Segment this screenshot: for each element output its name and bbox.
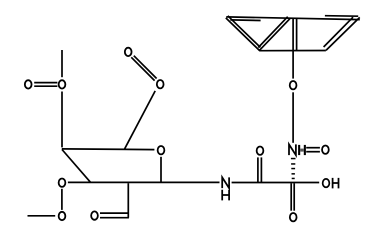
wire aromatic V left arm lower line	[226, 18, 260, 51]
wire aromatic central vertical second	[296, 19, 298, 51]
node N=O nitro double bond	[306, 147, 320, 149]
wire long horizontal O-C3-C2-C1-N	[68, 181, 220, 183]
wire ring right edge O-C1	[160, 157, 162, 183]
wire O-O bond methoxy left	[61, 189, 63, 210]
wire aromatic top-left inner double line	[230, 19, 260, 22]
wire O-C4 bond	[61, 92, 63, 148]
wire O-N bond vertical	[292, 92, 294, 143]
node O methoxy upper	[59, 179, 66, 187]
node O methoxy lower	[59, 212, 66, 220]
wire aromatic top long line	[226, 17, 359, 20]
node O formate bottom	[157, 80, 164, 88]
node N nitro	[289, 144, 296, 155]
wire aromatic right diagonal inner	[324, 17, 353, 47]
wire aromatic right diagonal	[326, 17, 360, 50]
node O above N	[290, 81, 297, 89]
node O amide	[257, 147, 264, 155]
node O formate top	[125, 48, 132, 56]
node O left carbonate	[25, 80, 32, 88]
node O=O double bond left carbonate	[34, 82, 57, 84]
node O ring	[158, 146, 165, 154]
node O nitro right	[322, 146, 329, 154]
wire aromatic V right arm inner line	[258, 17, 287, 48]
wire aromatic top-right upper line	[325, 15, 358, 18]
node H hydroxyl	[333, 178, 339, 189]
node hashed wedge Calpha-N	[291, 158, 296, 179]
node formate double bond O=O diagonal	[131, 57, 154, 80]
node N amine	[222, 177, 229, 188]
node O carbonate center	[59, 80, 66, 88]
node H amine	[222, 190, 229, 201]
wire aromatic V left arm upper line	[228, 16, 261, 48]
node wedge bond N to O	[298, 145, 306, 155]
node amide C=O double bond	[257, 157, 259, 182]
wire N-C(amide)-Calpha-OH	[232, 182, 320, 184]
node aldehyde C=O double bond	[100, 212, 129, 214]
wire C2-CHO bond	[127, 183, 129, 217]
wire aromatic bottom line	[260, 50, 326, 52]
node carboxyl C=O double bond	[290, 183, 292, 210]
node O hydroxyl	[323, 179, 330, 187]
wire ring top edge C4-C5-O	[62, 148, 155, 151]
wire methyl-O bond top left carbonate	[61, 50, 63, 77]
wire aromatic-O bond vertical	[292, 19, 294, 79]
node O aldehyde	[91, 211, 98, 219]
wire ring diagonal C4-C3	[62, 150, 91, 183]
node O carboxyl bottom	[290, 213, 297, 221]
wire O2-C5 diagonal bond	[124, 91, 155, 149]
wire methyl bond bottom left	[28, 215, 56, 217]
wire aromatic V right arm outer line	[259, 19, 290, 51]
